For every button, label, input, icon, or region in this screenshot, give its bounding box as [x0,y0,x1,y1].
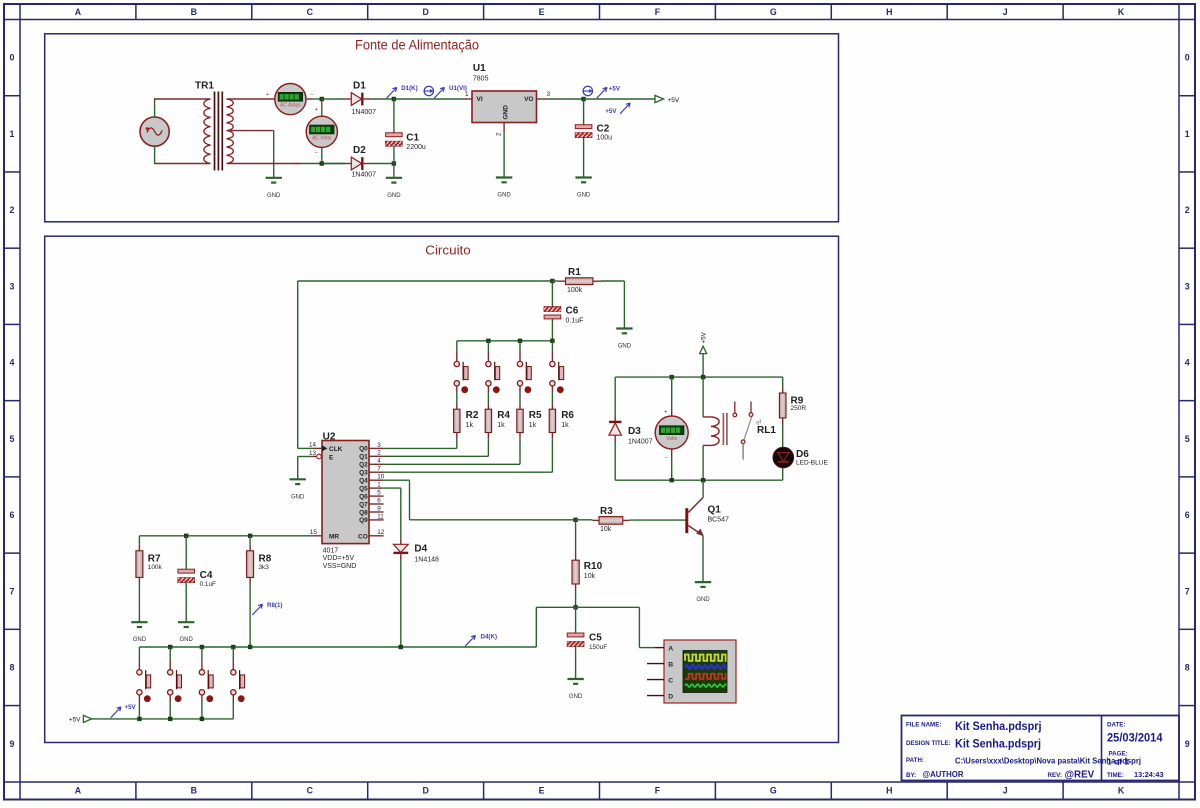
svg-text:D1(K): D1(K) [401,85,418,92]
svg-text:VI: VI [477,96,483,103]
oscilloscope pin A [655,647,664,649]
power terminal +5V output [655,95,664,102]
push button (bottom row 3) [201,647,203,660]
AC source V1 [140,117,169,146]
svg-text:Q1: Q1 [708,504,722,515]
ground: center tap [266,177,282,179]
capacitor C2 100u [575,99,612,177]
svg-text:H: H [886,7,892,17]
svg-text:4: 4 [10,358,15,368]
svg-text:AC Amps: AC Amps [280,103,301,109]
wire: source top to TR1 primary [154,99,156,117]
svg-text:R8(1): R8(1) [267,602,282,609]
wire: junction to D1 [322,98,344,100]
svg-text:AC Volts: AC Volts [312,135,332,141]
svg-text:GND: GND [497,193,511,199]
resistor R7 100k [136,536,163,584]
probe D4(K) [465,635,475,646]
U2 pin 1 (Q5) [369,487,384,489]
ground: below C2 [575,176,591,178]
wire: lower bus (D4 net) [139,646,536,648]
svg-text:R10: R10 [584,561,603,572]
wire: source bottom to TR1 primary [154,146,156,163]
push button (top row 4) [551,341,553,352]
wire: R9 to D6 [782,425,784,448]
LED D6 LED-BLUE [773,447,828,467]
oscilloscope [664,640,737,703]
svg-text:Q3: Q3 [359,470,368,477]
svg-text:VDD=+5V: VDD=+5V [323,555,355,562]
node: D1 cathode junction [392,97,396,101]
svg-text:Q6: Q6 [359,493,368,500]
svg-text:1k: 1k [466,422,474,429]
current probe on D1 output [424,86,433,95]
U2 pin 14 (CLK) [313,447,322,449]
svg-text:F: F [655,7,661,17]
svg-text:BC547: BC547 [708,517,730,524]
wire: U1 output to +5V node [537,98,546,100]
power terminal +5V (input) [83,715,91,722]
diode D3 1N4007 (flyback) [609,422,653,446]
svg-text:1k: 1k [497,422,505,429]
svg-text:+: + [266,92,269,98]
U2 pin 13 (E) with bubble [312,456,317,458]
node: R3/R10 junction [573,518,577,522]
svg-text:3k3: 3k3 [259,564,270,571]
capacitor C6 0.1uF [544,281,583,341]
svg-text:Q2: Q2 [359,462,368,469]
svg-text:F: F [655,786,661,796]
svg-text:4: 4 [377,458,381,465]
svg-text:G: G [770,7,777,17]
wire: button to R6 [551,386,553,392]
wire: rail down to D3 [614,377,616,416]
svg-text:CLK: CLK [329,446,343,453]
svg-text:C: C [307,7,314,17]
svg-text:2: 2 [10,205,15,215]
svg-text:2: 2 [1185,205,1190,215]
svg-text:5: 5 [10,434,15,444]
wire: R1 to ground [601,280,624,282]
probe +5V (bottom) [111,707,121,718]
svg-text:5: 5 [1185,434,1190,444]
ground: below U1 [496,176,512,178]
svg-text:+: + [315,107,318,113]
svg-text:C5: C5 [589,632,602,643]
svg-text:H: H [886,786,892,796]
wire: R4 to U2 Q1 [487,433,489,439]
svg-text:GND: GND [503,105,510,120]
wire: button to R5 [519,386,521,392]
svg-text:G: G [770,786,777,796]
svg-text:DESIGN TITLE:: DESIGN TITLE: [906,740,951,747]
svg-text:13:24:43: 13:24:43 [1134,770,1164,779]
svg-text:5: 5 [377,490,381,497]
U2 pin 10 (Q4) [369,479,384,481]
capacitor C1 2200u [386,99,426,164]
resistor R8 3k3 [247,536,272,584]
svg-text:D: D [422,786,428,796]
node: lower bus junctions [168,645,172,649]
wire: C1 node to U1 input [394,98,464,100]
wire: bottom rail to D2 [322,163,344,165]
resistor R10 10k [572,520,603,591]
wire: upper button bus [457,340,553,342]
svg-text:10: 10 [377,474,385,481]
svg-text:Q9: Q9 [359,517,368,524]
svg-text:D4(K): D4(K) [481,634,498,641]
svg-text:0: 0 [1185,53,1190,63]
svg-text:+5V: +5V [125,704,137,711]
svg-text:GND: GND [387,193,401,199]
svg-text:14: 14 [309,442,317,449]
push button (bottom row 2) [169,647,171,660]
svg-text:+5V: +5V [701,331,708,343]
node: bottom bus junctions [137,717,141,721]
wire: rail to Q1 collector [702,480,704,498]
svg-text:E: E [329,455,334,462]
svg-text:Volts: Volts [666,436,677,442]
oscilloscope pin B [647,663,664,665]
Fonte de Alimentacao box [45,34,839,222]
ammeter AC Amps [266,84,314,115]
svg-text:1 of 1: 1 of 1 [1107,756,1129,766]
svg-text:U1: U1 [473,63,486,74]
probe U1(VI) [434,87,444,98]
svg-text:BY:: BY: [906,772,916,779]
svg-text:Kit Senha.pdsprj: Kit Senha.pdsprj [955,719,1042,733]
svg-text:3: 3 [377,442,381,449]
svg-text:D: D [422,7,428,17]
U2 pin 4 (Q2) [369,463,384,465]
wire: E pin to ground [298,456,312,458]
probe +5V (lower) [620,103,630,114]
ground: below C1 [393,164,395,178]
svg-text:J: J [1003,786,1008,796]
svg-text:Q1: Q1 [359,454,368,461]
svg-text:R7: R7 [148,553,161,564]
svg-text:250R: 250R [791,405,807,412]
svg-text:11: 11 [377,513,384,520]
wire: U1 GND pin down [503,123,505,132]
svg-text:GND: GND [577,193,591,199]
svg-text:C: C [307,786,314,796]
wire: Q1 emitter to ground [702,536,704,582]
svg-text:RL1: RL1 [757,425,776,436]
wire: R10 to C5/scope node [575,591,577,608]
ground: right of R1 [616,327,632,329]
wire: R2 to U2 Q0 [456,433,458,439]
svg-text:Fonte de Alimentação: Fonte de Alimentação [355,37,479,52]
svg-text:E: E [539,7,545,17]
svg-text:+: + [664,409,667,415]
svg-text:3: 3 [547,91,551,98]
svg-text:GND: GND [180,637,194,643]
svg-text:7805: 7805 [473,76,489,83]
push button (top row 2) [487,341,489,352]
svg-text:R4: R4 [497,410,510,421]
svg-text:Q5: Q5 [359,485,368,492]
svg-text:6: 6 [377,497,381,504]
wire: D6 to bottom rail [782,468,784,481]
svg-text:DATE:: DATE: [1107,722,1125,729]
wire: button 1 to +5V bus [138,695,140,702]
svg-text:1: 1 [465,91,469,98]
resistor R2 1k [454,409,460,432]
node: C1 bottom junction [392,161,396,165]
svg-text:C2: C2 [597,123,610,134]
wire: R7 to ground [138,584,140,622]
U2 pin 3 (Q0) [369,447,384,449]
svg-text:B: B [668,662,673,669]
svg-text:D6: D6 [796,449,809,460]
resistor R4 1k [485,409,491,432]
svg-text:C6: C6 [566,305,579,316]
voltmeter AC Volts [306,107,337,157]
svg-text:REV:: REV: [1048,772,1062,779]
wire: R8 down to D4 bus [249,584,251,647]
push button (top row 1) [456,341,458,352]
svg-text:−: − [310,93,313,99]
oscilloscope pin D [647,695,664,697]
svg-text:1N4007: 1N4007 [628,439,653,446]
node: bottom rail junctions [670,478,674,482]
svg-text:1k: 1k [561,422,569,429]
capacitor C5 150uF [567,607,607,678]
svg-text:7: 7 [377,466,381,473]
svg-text:A: A [668,646,673,653]
svg-text:1N4007: 1N4007 [352,171,377,178]
wire: R10 node to scope input A [576,606,640,608]
push button (bottom row 4) [232,647,234,660]
U2 pin 7 (Q3) [369,471,384,473]
node: R10/C5 junction [573,605,577,609]
resistor R3 10k [576,506,630,533]
wire: D4 cathode to lower bus [400,553,402,560]
svg-text:1: 1 [10,129,15,139]
node: top rail junction at voltmeter [320,97,324,101]
svg-text:9: 9 [10,739,15,749]
svg-text:LED-BLUE: LED-BLUE [796,460,828,467]
svg-text:25/03/2014: 25/03/2014 [1107,730,1163,744]
node: MR bus junctions [184,534,188,538]
wire: D3 anode to bottom rail [614,435,616,441]
wire: button to R4 [487,386,489,392]
svg-text:Q7: Q7 [359,501,368,508]
svg-text:TIME:: TIME: [1107,772,1124,779]
svg-text:R1: R1 [568,267,581,278]
oscilloscope pin C [647,679,664,681]
svg-text:GND: GND [267,193,281,199]
node: junction R1/C6 [550,279,554,283]
svg-text:2: 2 [496,132,503,136]
svg-text:Circuito: Circuito [425,243,471,258]
current probe at U1 output [583,86,592,95]
resistor R1 100k [552,267,601,294]
svg-text:D3: D3 [628,426,641,437]
svg-text:GND: GND [618,344,632,350]
push button (top row 3) [519,341,521,352]
wire: Q5 net to D4 [384,487,401,489]
svg-text:1k: 1k [529,422,537,429]
ground: U2 E pin [290,478,306,480]
wire: secondary center tap [227,130,274,132]
U2 pin 6 (Q7) [369,503,384,505]
svg-text:C4: C4 [200,570,213,581]
svg-text:Q4: Q4 [359,478,368,485]
resistor R5 1k [517,409,523,432]
svg-text:+5V: +5V [605,108,617,115]
wire: CLK net up and over to C6/R1 [298,447,313,449]
relay RL1 coil [703,377,776,480]
svg-text:A: A [75,786,82,796]
wire: button 4 to +5V bus [232,695,234,702]
diode D1 1N4007 [351,81,376,116]
ground: C5 [567,678,583,680]
svg-text:13: 13 [309,450,317,457]
svg-text:Q0: Q0 [359,446,368,453]
svg-text:VSS=GND: VSS=GND [323,563,357,570]
svg-text:15: 15 [310,529,318,536]
wire: +5V bottom bus [91,718,233,720]
svg-text:GND: GND [291,494,305,500]
svg-text:2200u: 2200u [406,144,426,151]
svg-text:@AUTHOR: @AUTHOR [923,770,964,779]
svg-text:MR: MR [329,534,339,541]
svg-text:CO: CO [358,534,368,541]
svg-text:1: 1 [1185,129,1190,139]
IC U2 4017 [322,431,369,570]
svg-text:D: D [668,694,673,701]
diode D4 1N4148 [393,539,439,564]
svg-text:8: 8 [1185,663,1190,673]
transistor Q1 BC547 [685,498,729,537]
svg-text:7: 7 [1185,586,1190,596]
svg-text:+5V: +5V [668,97,680,104]
svg-text:10k: 10k [584,573,596,580]
regulator U1 7805 [472,63,537,123]
wire: +5V terminal to top rail [702,354,704,378]
wire: junction to +5V terminal [584,98,655,100]
svg-text:R6: R6 [561,410,574,421]
svg-text:R3: R3 [600,506,613,517]
ground: Q1 emitter [695,581,711,583]
svg-text:J: J [1003,7,1008,17]
node: bottom rail junction at voltmeter [320,161,324,165]
svg-text:1N4007: 1N4007 [352,109,377,116]
relay RL1 switch [733,402,753,460]
svg-text:C: C [668,678,673,685]
svg-text:C1: C1 [406,132,419,143]
ground: R7 [131,621,147,623]
svg-text:PATH:: PATH: [906,757,924,764]
svg-text:VO: VO [524,96,533,103]
U2 pin 12 (CO) [369,535,384,537]
svg-text:100k: 100k [148,564,163,571]
svg-text:−: − [665,455,668,461]
svg-text:@REV: @REV [1065,770,1095,781]
svg-text:10k: 10k [600,526,612,533]
wire: D2 cathode to C1 bottom node [362,163,370,165]
svg-text:E: E [539,786,545,796]
wire: junction down to AC Volts [321,99,323,116]
diode D2 1N4007 [351,145,376,178]
title block [902,716,1180,781]
wire: AC Volts to bottom rail [321,147,323,163]
svg-text:U2: U2 [323,431,336,442]
probe D1(K) [387,87,397,98]
resistor R6 1k [549,409,555,432]
probe R8(1) [252,604,262,615]
wire: button 3 to +5V bus [201,695,203,702]
svg-text:GND: GND [569,694,583,700]
U2 pin 5 (Q6) [369,495,384,497]
svg-text:TR1: TR1 [195,81,214,92]
svg-text:9: 9 [1185,739,1190,749]
wire: R5 to U2 Q2 [519,433,521,439]
wire: D1 cathode to C1 node [362,98,370,100]
node: bus junctions [486,339,490,343]
svg-text:R2: R2 [466,410,479,421]
svg-text:D4: D4 [414,544,427,555]
svg-text:−: − [315,151,318,157]
push button (bottom row 1) [138,647,140,660]
svg-text:D2: D2 [353,145,366,156]
ground: C4 [178,621,194,623]
svg-text:7: 7 [10,586,15,596]
U2 pin 11 (Q9) [369,519,384,521]
wire: relay top rail [615,376,783,378]
svg-text:0.1uF: 0.1uF [200,581,216,588]
wire: bus up to R10/C5 node [535,607,537,647]
power terminal +5V (relay rail) [700,346,707,353]
svg-text:Kit Senha.pdsprj: Kit Senha.pdsprj [955,737,1041,751]
svg-text:1N4148: 1N4148 [414,557,439,564]
node: rail junctions [670,375,674,379]
Circuito box [45,236,839,742]
svg-text:R8: R8 [259,553,272,564]
capacitor C4 0.1uF [178,536,216,622]
svg-text:2: 2 [377,450,381,457]
voltmeter Volts (DC) [671,377,673,409]
wire: button 2 to +5V bus [169,695,171,702]
svg-text:6: 6 [10,510,15,520]
svg-text:+5V: +5V [609,86,621,93]
svg-text:0: 0 [10,53,15,63]
svg-text:150uF: 150uF [589,644,607,651]
svg-text:100k: 100k [567,287,583,294]
resistor R9 250R [779,377,806,424]
probe +5V (upper) [597,87,607,98]
svg-text:+5V: +5V [69,717,81,724]
svg-text:0.1uF: 0.1uF [566,318,584,325]
svg-text:GND: GND [133,637,147,643]
wire: MR bus [139,535,313,537]
wire: R3 to Q1 base [630,519,687,521]
svg-text:B: B [191,786,197,796]
wire: secondary top to AC Amps [227,98,275,100]
svg-text:4: 4 [1185,358,1190,368]
wire: relay bottom rail [615,479,783,481]
svg-text:D1: D1 [353,81,366,92]
svg-text:K: K [1118,7,1125,17]
svg-text:GND: GND [696,597,710,603]
svg-text:FILE NAME:: FILE NAME: [906,722,941,729]
svg-text:A: A [75,7,82,17]
U2 pin 9 (Q8) [369,511,384,513]
svg-text:3: 3 [10,281,15,291]
svg-text:Q8: Q8 [359,509,368,516]
